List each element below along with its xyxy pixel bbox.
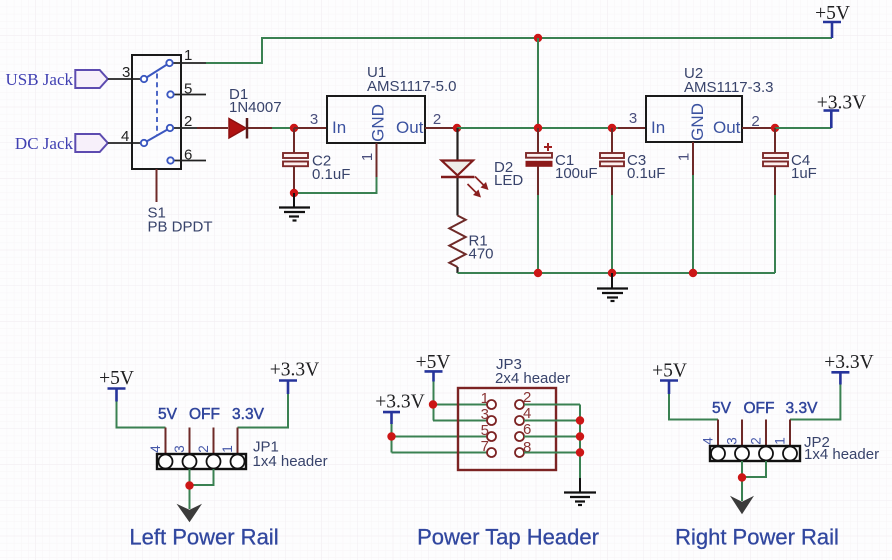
svg-text:2: 2 <box>433 111 441 128</box>
U1 pin 3 In <box>294 127 327 129</box>
power +5V (JP3) <box>416 352 451 382</box>
junction JP3 right 4 <box>576 416 584 424</box>
junction JP3 right 6 <box>576 432 584 440</box>
power +5V (JP2) <box>652 361 687 395</box>
wire U2 out to +3.3V <box>775 127 831 129</box>
junction U1 out / LED branch <box>453 124 461 132</box>
junction C2 bottom <box>290 189 298 197</box>
svg-text:1x4 header: 1x4 header <box>253 453 328 470</box>
svg-text:1x4 header: 1x4 header <box>804 446 879 463</box>
junction C3 bottom / ground <box>608 269 616 277</box>
svg-text:1: 1 <box>359 153 376 161</box>
svg-text:Out: Out <box>396 118 424 137</box>
svg-text:OFF: OFF <box>744 400 775 417</box>
power +5V (top right) <box>815 3 850 38</box>
svg-text:+5V: +5V <box>416 352 451 373</box>
svg-text:1: 1 <box>676 153 693 161</box>
svg-text:2: 2 <box>523 389 531 406</box>
svg-text:3.3V: 3.3V <box>232 406 265 423</box>
U2 pin 3 In <box>618 127 646 129</box>
svg-text:Left Power Rail: Left Power Rail <box>129 525 278 550</box>
wire USB Jack to S1 pin3 <box>108 78 141 80</box>
svg-text:1: 1 <box>184 47 192 64</box>
U1 pin 2 Out <box>425 127 457 129</box>
wire U2 GND to gnd rail <box>692 175 694 273</box>
wire S1 pin2 to D1 <box>197 127 228 129</box>
svg-text:2: 2 <box>749 437 764 445</box>
ground below rail <box>597 273 628 301</box>
svg-text:1: 1 <box>220 445 235 453</box>
svg-text:100uF: 100uF <box>555 165 598 182</box>
wires JP3 right pins to gnd <box>524 405 580 479</box>
wire JP2 pin2 to junction <box>742 461 766 477</box>
capacitor C4 <box>763 128 817 195</box>
op-amp U1 (regulator AMS1117-5.0) <box>327 64 457 143</box>
regulator U2 AMS1117-3.3 <box>646 65 774 142</box>
wire +3.3V to JP3 pins 5,7 <box>392 424 488 453</box>
svg-text:+3.3V: +3.3V <box>375 392 424 413</box>
wire ground rail <box>458 272 776 274</box>
junction JP3 +3.3V <box>387 432 395 440</box>
resistor R1 <box>449 216 493 268</box>
wire LED to R1 <box>456 178 458 216</box>
svg-text:+5V: +5V <box>99 368 134 389</box>
svg-text:In: In <box>651 118 665 137</box>
capacitor C3 <box>600 128 665 195</box>
wire C1 to gnd rail <box>537 195 539 273</box>
svg-text:2: 2 <box>184 113 192 130</box>
svg-text:4: 4 <box>701 437 716 445</box>
svg-text:GND: GND <box>688 103 707 141</box>
svg-text:3: 3 <box>481 406 489 423</box>
svg-text:1: 1 <box>481 390 489 407</box>
junction C4 top <box>771 124 779 132</box>
wire JP1 pin2 to junction <box>190 469 214 485</box>
junction JP3 +5V <box>429 400 437 408</box>
svg-text:GND: GND <box>369 104 388 142</box>
svg-text:6: 6 <box>184 147 192 164</box>
power +5V (JP1) <box>99 368 134 402</box>
wire D1 to node In1 <box>272 127 294 129</box>
svg-text:5: 5 <box>184 81 192 98</box>
svg-text:3: 3 <box>310 111 318 128</box>
svg-text:USB Jack: USB Jack <box>5 70 73 89</box>
wire +3.3V to JP1 pin1 <box>238 394 289 428</box>
switch S1 <box>121 47 206 202</box>
svg-text:PB DPDT: PB DPDT <box>148 219 213 236</box>
junction C1 top <box>534 124 542 132</box>
svg-text:7: 7 <box>481 438 489 455</box>
svg-text:6: 6 <box>523 421 531 438</box>
wire 5V rail U1-out to U2-in <box>457 127 618 129</box>
svg-text:OFF: OFF <box>189 406 220 423</box>
ground below C2 <box>279 193 310 221</box>
JP1 pin stubs <box>166 428 238 455</box>
U2 pin 1 GND <box>676 142 694 175</box>
wire top rail down to 5V rail <box>537 38 539 128</box>
wire JP1 pin3 down <box>189 469 191 509</box>
wire +5V to JP1 pin4 <box>117 402 166 428</box>
svg-text:4: 4 <box>121 128 129 145</box>
svg-text:3: 3 <box>122 64 130 81</box>
connector JP1 1x4 header <box>148 445 246 469</box>
svg-text:2: 2 <box>196 445 211 453</box>
diode D1 <box>229 86 282 139</box>
svg-text:Out: Out <box>713 118 741 137</box>
wire R1 to gnd rail <box>456 267 458 273</box>
svg-text:+3.3V: +3.3V <box>824 352 873 373</box>
wire U1 GND to C2 bottom <box>294 177 377 193</box>
power +3.3V (JP2) <box>824 352 873 385</box>
svg-text:3.3V: 3.3V <box>786 400 819 417</box>
wire +5V to JP2 pin4 <box>669 394 718 420</box>
U1 pin 1 GND <box>359 143 377 177</box>
flag DC Jack <box>15 134 108 153</box>
wire +5V to JP3 pins 1,3 <box>433 382 488 421</box>
svg-text:1N4007: 1N4007 <box>229 99 282 116</box>
svg-text:5V: 5V <box>158 406 178 423</box>
power +3.3V (JP3) <box>375 392 424 425</box>
power +3.3V (JP1) <box>270 360 319 395</box>
connector JP2 1x4 header <box>701 437 801 461</box>
flag USB Jack <box>5 70 107 89</box>
netflag arrow Left Power Rail <box>177 504 203 523</box>
junction C3 top <box>608 124 616 132</box>
JP2 pin stubs <box>718 420 790 447</box>
wire +3.3V to JP2 pin1 <box>790 385 840 420</box>
svg-text:4: 4 <box>523 405 531 422</box>
capacitor C2 <box>283 128 350 193</box>
svg-text:AMS1117-3.3: AMS1117-3.3 <box>684 79 774 96</box>
junction U2 gnd bottom <box>689 269 697 277</box>
junction JP3 right 8 <box>576 448 584 456</box>
wire S1 pin1 to +5V top rail <box>206 38 832 63</box>
U2 pin 2 Out <box>742 127 775 129</box>
connector JP3 2x4 header <box>458 388 556 470</box>
ground below JP3 <box>564 478 596 505</box>
svg-text:5V: 5V <box>712 400 732 417</box>
svg-text:+3.3V: +3.3V <box>270 360 319 381</box>
svg-text:0.1uF: 0.1uF <box>312 166 350 183</box>
power +3.3V (right) <box>817 93 866 129</box>
svg-text:2: 2 <box>751 113 759 130</box>
svg-text:AMS1117-5.0: AMS1117-5.0 <box>367 78 457 95</box>
svg-text:2x4 header: 2x4 header <box>495 370 570 387</box>
svg-text:LED: LED <box>494 172 523 189</box>
svg-text:5: 5 <box>481 422 489 439</box>
wire C3 to gnd rail <box>611 195 613 273</box>
junction JP2 below <box>738 473 746 481</box>
svg-text:3: 3 <box>172 445 187 453</box>
svg-text:Right Power Rail: Right Power Rail <box>675 525 839 550</box>
netflag arrow Right Power Rail <box>730 496 754 515</box>
junction C2/U1-In node <box>290 124 298 132</box>
svg-text:Power Tap Header: Power Tap Header <box>417 525 599 550</box>
svg-text:3: 3 <box>725 437 740 445</box>
svg-text:DC Jack: DC Jack <box>15 134 74 153</box>
LED D2 <box>441 128 523 198</box>
capacitor C1 <box>526 128 598 195</box>
junction C1 bottom <box>534 269 542 277</box>
svg-text:4: 4 <box>148 445 163 453</box>
junction JP1 below <box>185 481 193 489</box>
svg-text:1: 1 <box>773 437 788 445</box>
wire C4 to gnd rail <box>774 195 776 273</box>
svg-text:1uF: 1uF <box>791 165 817 182</box>
svg-text:0.1uF: 0.1uF <box>627 165 665 182</box>
svg-text:+5V: +5V <box>652 361 687 382</box>
junction top rail to C1 branch <box>534 34 542 42</box>
svg-text:3: 3 <box>629 110 637 127</box>
svg-text:In: In <box>332 118 346 137</box>
wire DC Jack to S1 pin4 <box>108 142 141 144</box>
wire JP2 pin3 down <box>741 461 743 501</box>
svg-text:470: 470 <box>469 246 494 263</box>
